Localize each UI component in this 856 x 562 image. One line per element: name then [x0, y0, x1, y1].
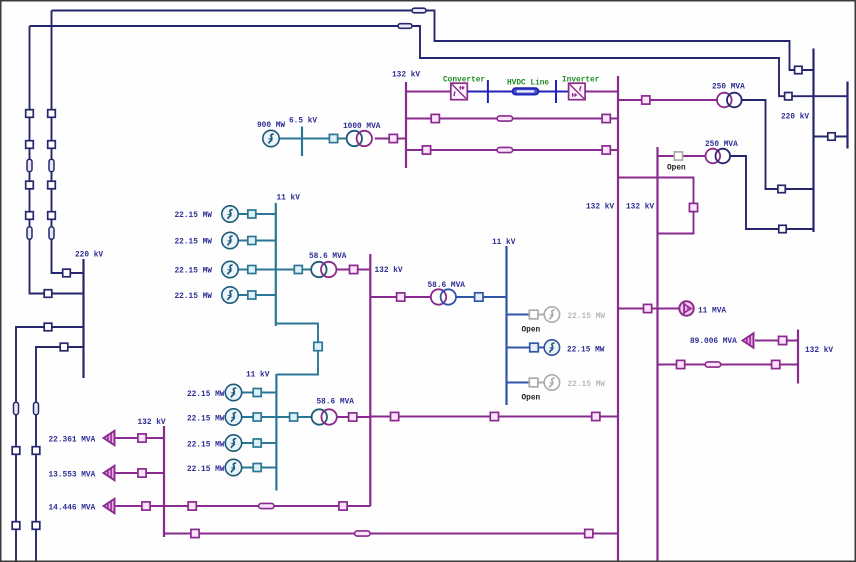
wire load 22.361 to bus no.3	[116, 437, 165, 439]
bus 6.5 kV	[301, 127, 303, 157]
transformer 58.6 MVA no.1	[311, 262, 326, 277]
wire inverter ac side to 132kV bus x618	[585, 91, 618, 93]
svg-text:22.15 MW: 22.15 MW	[568, 313, 606, 321]
svg-text:14.446 MVA: 14.446 MVA	[49, 505, 96, 513]
breaker bottom line left	[191, 529, 199, 537]
breaker feeder A 4	[26, 212, 34, 220]
svg-text:132 kV: 132 kV	[392, 72, 420, 80]
wire 132kV line bus no.3 to bus no.2 bottom	[164, 505, 370, 507]
wire open gen branch 3 gray part	[529, 382, 545, 384]
wire 11kV bus no.1 to transformer 58.6 no.1	[276, 269, 311, 271]
svg-text:Open: Open	[522, 327, 541, 335]
wire gen to 11kV bus no.3 y467.5	[242, 467, 277, 469]
breaker bus tie	[689, 203, 697, 211]
breaker feeder A to bus	[44, 290, 52, 298]
svg-text:132 kV: 132 kV	[375, 267, 403, 275]
breaker open 250MVA no.2	[674, 152, 682, 160]
wire branch from 220kV bus to feeder D x36	[36, 347, 84, 562]
wire transformer 1000MVA to 132kV bus	[375, 138, 406, 140]
svg-text:22.15 MW: 22.15 MW	[175, 239, 213, 247]
wire 132kV line bus x657.5 to right 132kV bus no.4	[658, 364, 799, 366]
breaker feeder B to bus	[63, 269, 71, 277]
breaker feeder D low	[32, 522, 40, 530]
inverter U2 box	[569, 83, 586, 100]
wire 132kV long line bus no.2 to bus x618	[370, 416, 618, 418]
wire gen to 11kV bus no.1 y269.5	[238, 269, 276, 271]
svg-text:58.6 MVA: 58.6 MVA	[309, 253, 347, 261]
wire 132kV line 3 between left station and bus x618	[406, 149, 618, 151]
svg-text:22.15 MW: 22.15 MW	[187, 391, 225, 399]
HVDC line element	[513, 88, 539, 94]
dc node tick left	[487, 80, 489, 103]
breaker feeder D mid	[32, 447, 40, 455]
breaker feeder B 2	[48, 141, 56, 149]
bus 11 kV no.1	[275, 203, 277, 326]
wire open gen branch 3 bus stub	[507, 382, 530, 384]
breaker gen y269.5	[248, 266, 256, 274]
line element right line	[705, 362, 721, 367]
svg-text:22.15 MW: 22.15 MW	[175, 212, 213, 220]
breaker gen y240.5	[248, 237, 256, 245]
breaker load 22.361	[138, 434, 146, 442]
breaker feeder B 3	[48, 181, 56, 189]
breaker line3 left	[422, 146, 430, 154]
load 14.446 MVA	[104, 499, 115, 514]
svg-text:22.15 MW: 22.15 MW	[187, 416, 225, 424]
svg-text:22.15 MW: 22.15 MW	[175, 268, 213, 276]
wire gen branch 2 blue	[507, 347, 545, 349]
svg-text:250 MVA: 250 MVA	[712, 84, 745, 92]
breaker branch2	[530, 343, 539, 352]
svg-text:Open: Open	[522, 395, 541, 403]
svg-text:11 MVA: 11 MVA	[698, 308, 726, 316]
wire load 89.006 to bus no.4	[755, 340, 798, 342]
transformer 1000 MVA	[347, 131, 362, 146]
breaker gen 900MW	[329, 134, 337, 142]
wire left feeder A vertical x29.5 down to 220kV bus	[30, 26, 84, 294]
generator 22.15 MW y240.5	[222, 232, 238, 248]
breaker 58.6 no.2 hv	[397, 293, 405, 301]
svg-text:Open: Open	[667, 165, 686, 173]
svg-text:22.15 MW: 22.15 MW	[187, 466, 225, 474]
bus 132 kV left station	[405, 82, 407, 168]
wire tie between right 220kV buses	[814, 136, 848, 138]
generator 22.15 MW y295	[222, 287, 238, 303]
breaker 250MVA no.1 hv	[778, 185, 785, 192]
breaker gen plant3 y417	[253, 413, 261, 421]
svg-text:11 kV: 11 kV	[277, 195, 301, 203]
breaker load 14.446	[142, 502, 150, 510]
wire gen to 11kV bus no.3 y417	[242, 416, 277, 418]
wire open gen branch 1 gray part	[529, 314, 545, 316]
line element L1 on top line	[412, 8, 426, 13]
breaker long line 2	[490, 412, 498, 420]
breaker long line 3	[592, 412, 600, 420]
generator 22.15 MW branch2	[544, 340, 559, 355]
svg-text:132 kV: 132 kV	[805, 347, 833, 355]
svg-text:132 kV: 132 kV	[626, 204, 654, 212]
bus 220 kV right no.2	[846, 82, 848, 149]
breaker 250MVA no.1	[642, 96, 650, 104]
wire load 14.446 to bus no.3	[116, 505, 165, 507]
bus 132 kV no.2	[369, 254, 371, 506]
svg-text:132 kV: 132 kV	[586, 204, 614, 212]
breaker on line2 right	[785, 93, 792, 100]
line element feeder A lower	[27, 227, 32, 240]
line element L2 on top line 2	[398, 24, 412, 29]
breaker 1000MVA hv side	[389, 134, 397, 142]
bus 132 kV x657.5	[656, 147, 658, 562]
load 22.361 MVA	[104, 431, 115, 446]
breaker feeder A 1	[26, 110, 34, 118]
svg-text:11 kV: 11 kV	[492, 239, 516, 247]
wire transformer 58.6 no.3 to 132kV bus no.2	[337, 416, 371, 418]
svg-text:6.5 kV: 6.5 kV	[289, 118, 317, 126]
breaker long line 1	[391, 412, 399, 420]
wire load 13.553 to bus no.3	[116, 472, 165, 474]
breaker bottom line right	[585, 529, 593, 537]
line element line3	[497, 147, 512, 152]
generator 22.15 MW plant3 y417	[225, 409, 241, 425]
transformer 250 MVA no.1	[717, 93, 732, 108]
breaker open branch3	[529, 378, 538, 387]
svg-text:89.006 MVA: 89.006 MVA	[690, 338, 737, 346]
breaker gen plant3 y467.5	[253, 464, 261, 472]
breaker line2 right	[602, 114, 610, 122]
svg-text:220 kV: 220 kV	[75, 252, 103, 260]
wire gen to 11kV bus no.1 y240.5	[238, 240, 276, 242]
svg-text:22.15 MW: 22.15 MW	[567, 347, 605, 355]
breaker gen plant3 y443	[253, 439, 261, 447]
breaker open branch1	[529, 310, 538, 319]
svg-text:1000 MVA: 1000 MVA	[343, 123, 381, 131]
breaker right line right	[772, 360, 780, 368]
breaker gen y295	[248, 291, 256, 299]
svg-text:220 kV: 220 kV	[781, 114, 809, 122]
svg-text:22.15 MW: 22.15 MW	[187, 442, 225, 450]
bus 11 kV no.3	[275, 374, 277, 491]
wire generator 900MW to 6.5kV bus and transformer	[279, 138, 347, 140]
line element feeder D	[34, 402, 39, 415]
converter U1 box	[451, 83, 468, 100]
line element feeder C	[14, 402, 19, 415]
generator 22.15 MW plant3 y467.5	[225, 459, 241, 475]
breaker feeder A 3	[26, 181, 34, 189]
breaker 58.6 no.3 lv	[290, 413, 298, 421]
breaker feeder C mid	[12, 447, 20, 455]
transformer 58.6 MVA no.3	[312, 409, 327, 424]
wire connector 11kV bus no.1 to bus no.3	[276, 324, 318, 375]
transformer 58.6 MVA no.2	[431, 289, 446, 304]
svg-text:900 MW: 900 MW	[257, 122, 285, 130]
wire gen to 11kV bus no.1 y295	[238, 294, 276, 296]
svg-text:13.553 MVA: 13.553 MVA	[49, 472, 96, 480]
breaker connector	[314, 342, 322, 350]
wire transformer 58.6 no.1 to 132kV bus no.2	[336, 269, 370, 271]
bus 220 kV right no.1	[812, 49, 814, 233]
load 89.006 MVA	[743, 333, 754, 348]
svg-text:22.15 MW: 22.15 MW	[568, 381, 606, 389]
wire motor branch from bus x618	[618, 308, 680, 310]
bus 11 kV no.2	[505, 246, 507, 405]
bus 132 kV x618	[617, 76, 619, 562]
line element feeder B upper	[49, 159, 54, 172]
breaker branch C	[44, 323, 52, 331]
generator open 22.15 MW branch1	[544, 307, 559, 322]
svg-text:58.6 MVA: 58.6 MVA	[317, 399, 355, 407]
bus 132 kV no.4 right	[797, 330, 799, 384]
breaker 58.6 no.2 lv	[475, 293, 483, 301]
breaker branch D	[60, 343, 68, 351]
breaker bus3-bus2 left	[188, 502, 196, 510]
breaker load 89.006	[779, 336, 787, 344]
generator open 22.15 MW branch3	[544, 375, 559, 390]
breaker 58.6 no.3 hv	[349, 413, 357, 421]
breaker 58.6 no.1 hv	[350, 265, 358, 273]
line element feeder A upper	[27, 159, 32, 172]
breaker load 13.553	[138, 469, 146, 477]
breaker line3 right	[602, 146, 610, 154]
wire 132kV line 2 between left station and bus x618	[406, 118, 618, 120]
svg-text:Converter: Converter	[443, 77, 485, 85]
generator 22.15 MW y269.5	[222, 261, 238, 277]
wire transformer 250MVA no.2 to 220kV bus	[730, 156, 813, 229]
line element bottom line	[355, 531, 371, 536]
load 13.553 MVA	[104, 466, 115, 481]
generator G-900MW	[263, 130, 279, 146]
svg-text:22.15 MW: 22.15 MW	[175, 293, 213, 301]
wire 220kV line 1 top: from node x52 to 220kV bus right	[52, 11, 814, 71]
svg-text:250 MVA: 250 MVA	[705, 141, 738, 149]
line element feeder B lower	[49, 227, 54, 240]
breaker motor	[644, 304, 652, 312]
breaker right line left	[677, 360, 685, 368]
line element line2	[497, 116, 512, 121]
wire 220kV line 2: from node x30 to right 220kV bus 2	[30, 26, 848, 96]
bus 132 kV no.3	[163, 426, 165, 537]
dc node tick right	[555, 80, 557, 103]
svg-text:22.361 MVA: 22.361 MVA	[49, 437, 96, 445]
wire left feeder B vertical x51.5 down to 220kV bus	[52, 11, 84, 274]
line element bus3-bus2	[259, 503, 275, 508]
wire gen to 11kV bus no.3 y392.5	[242, 392, 277, 394]
svg-text:11 kV: 11 kV	[246, 372, 270, 380]
wire HVDC link ac side from 132kV bus to converter	[406, 91, 451, 93]
svg-text:58.6 MVA: 58.6 MVA	[428, 282, 466, 290]
breaker feeder C low	[12, 522, 20, 530]
wire bus tie loop between buses x618 x657.5	[618, 178, 694, 234]
generator 22.15 MW plant3 y392.5	[225, 384, 241, 400]
breaker feeder B 4	[48, 212, 56, 220]
breaker line2 left	[431, 114, 439, 122]
breaker gen y214	[248, 210, 256, 218]
breaker on tie	[828, 133, 835, 140]
breaker feeder B 1	[48, 110, 56, 118]
svg-text:Inverter: Inverter	[562, 77, 600, 85]
wire 132kV line bus no.3 to bus x618 bottom	[164, 533, 618, 535]
breaker bus3-bus2 right	[339, 502, 347, 510]
motor 11 MVA	[679, 301, 693, 315]
generator 22.15 MW y214	[222, 206, 238, 222]
wire dc link converter to inverter	[467, 91, 569, 93]
transformer 250 MVA no.2	[706, 149, 721, 164]
breaker gen plant3 y392.5	[253, 389, 261, 397]
wire gen to 11kV bus no.3 y443	[242, 442, 277, 444]
wire 132kV bus x657.5 to transformer 250MVA no.2	[658, 155, 706, 157]
svg-text:HVDC Line: HVDC Line	[507, 80, 549, 88]
breaker 58.6 no.1 lv	[294, 266, 302, 274]
bus 220 kV left	[82, 259, 84, 378]
wire 11kV bus no.3 to transformer 58.6 no.3	[276, 416, 312, 418]
wire 132kV bus no.2 to transformer 58.6 no.2	[370, 296, 431, 298]
wire transformer 250MVA no.1 to 220kV bus	[742, 100, 814, 189]
wire branch from 220kV bus to feeder C x16	[16, 327, 84, 562]
svg-text:132 kV: 132 kV	[138, 419, 166, 427]
breaker 250MVA no.2 hv	[779, 225, 786, 232]
wire 132kV bus to transformer 250MVA no.1	[618, 99, 717, 101]
wire open gen branch 1 bus stub	[507, 314, 530, 316]
generator 22.15 MW plant3 y443	[225, 435, 241, 451]
wire transformer 58.6 no.2 to 11kV bus no.2	[456, 296, 507, 298]
wire gen to 11kV bus no.1 y214	[238, 213, 276, 215]
breaker feeder A 2	[26, 141, 34, 149]
breaker on line1 at right	[795, 66, 802, 73]
